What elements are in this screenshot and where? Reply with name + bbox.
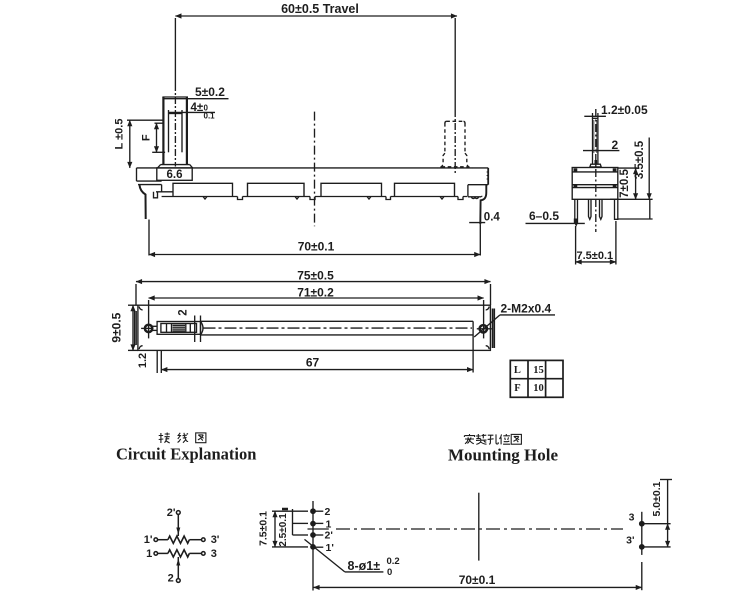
svg-text:9±0.5: 9±0.5: [110, 312, 124, 342]
svg-text:6–0.5: 6–0.5: [529, 209, 559, 223]
svg-text:67: 67: [306, 356, 320, 370]
svg-text:10: 10: [533, 383, 544, 394]
svg-text:L ±0.5: L ±0.5: [114, 119, 126, 150]
svg-text:L: L: [514, 365, 521, 376]
svg-text:0.1: 0.1: [204, 112, 216, 121]
svg-text:2: 2: [612, 138, 619, 152]
svg-text:4±: 4±: [191, 102, 204, 114]
svg-text:1: 1: [146, 548, 152, 560]
svg-text:1: 1: [326, 519, 332, 531]
svg-text:3.5±0.5: 3.5±0.5: [634, 140, 646, 179]
svg-text:0.4: 0.4: [484, 211, 501, 223]
svg-text:1': 1': [144, 534, 153, 546]
svg-text:5.0±0.1: 5.0±0.1: [651, 481, 663, 516]
svg-text:6.6: 6.6: [167, 169, 183, 181]
svg-text:70±0.1: 70±0.1: [459, 573, 496, 587]
svg-text:3': 3': [626, 535, 634, 547]
svg-text:2': 2': [325, 530, 333, 542]
svg-text:1.2±0.05: 1.2±0.05: [601, 103, 648, 117]
svg-text:71±0.2: 71±0.2: [297, 286, 334, 300]
svg-text:1.2: 1.2: [137, 353, 149, 368]
svg-text:0.2: 0.2: [387, 556, 400, 567]
svg-text:60±0.5 Travel: 60±0.5 Travel: [281, 2, 359, 16]
svg-text:7.5±0.1: 7.5±0.1: [577, 250, 614, 262]
svg-text:5±0.2: 5±0.2: [195, 85, 225, 99]
svg-text:7±0.5: 7±0.5: [619, 169, 631, 198]
svg-text:3': 3': [211, 534, 220, 546]
svg-text:3: 3: [629, 512, 635, 524]
svg-text:2: 2: [325, 506, 331, 518]
svg-text:F: F: [514, 383, 520, 394]
svg-text:2: 2: [168, 572, 174, 584]
svg-text:75±0.5: 75±0.5: [297, 269, 334, 283]
svg-text:1': 1': [326, 542, 334, 554]
svg-text:3: 3: [211, 548, 217, 560]
svg-text:8-ø1±: 8-ø1±: [348, 559, 381, 573]
svg-text:2.5±0.1: 2.5±0.1: [278, 513, 289, 547]
svg-text:0: 0: [387, 567, 392, 578]
svg-text:Circuit Explanation: Circuit Explanation: [116, 445, 256, 464]
svg-text:2: 2: [178, 309, 190, 315]
svg-text:2-M2x0.4: 2-M2x0.4: [501, 302, 552, 316]
svg-text:Mounting Hole: Mounting Hole: [448, 446, 558, 465]
svg-text:F: F: [141, 134, 153, 141]
svg-text:15: 15: [533, 365, 544, 376]
svg-text:70±0.1: 70±0.1: [298, 240, 335, 254]
svg-text:7.5±0.1: 7.5±0.1: [258, 511, 270, 546]
svg-text:2': 2': [167, 507, 176, 519]
